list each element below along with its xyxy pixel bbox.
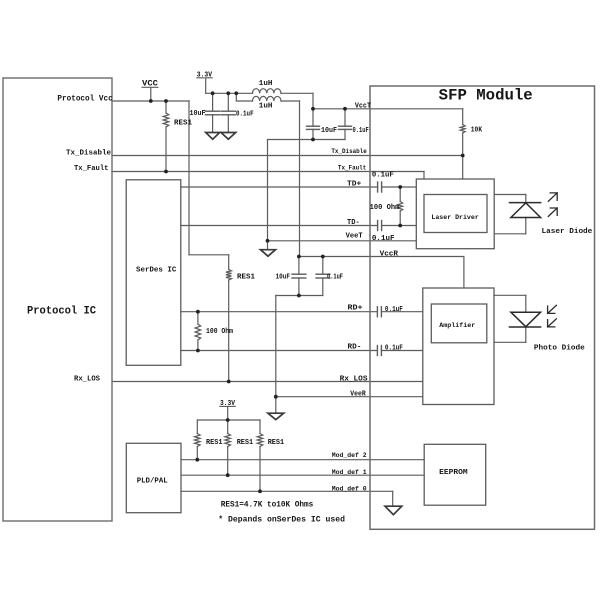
svg-text:PLD/PAL: PLD/PAL	[137, 478, 168, 486]
svg-text:VccT: VccT	[355, 102, 371, 110]
svg-text:RD+: RD+	[348, 305, 363, 313]
svg-text:10uF: 10uF	[190, 110, 206, 118]
svg-text:100 Ohm: 100 Ohm	[370, 204, 400, 212]
svg-text:0.1uF: 0.1uF	[372, 172, 394, 180]
svg-text:VeeT: VeeT	[346, 233, 363, 241]
svg-text:VccR: VccR	[380, 250, 399, 258]
svg-text:SFP Module: SFP Module	[439, 86, 533, 104]
svg-text:TD-: TD-	[347, 219, 360, 227]
svg-text:Tx_Fault: Tx_Fault	[74, 165, 109, 173]
svg-text:VCC: VCC	[142, 80, 158, 89]
svg-text:0.1uF: 0.1uF	[353, 127, 370, 135]
svg-text:3.3V: 3.3V	[197, 71, 213, 79]
svg-text:Laser Diode: Laser Diode	[542, 228, 593, 236]
svg-text:SerDes IC: SerDes IC	[136, 267, 177, 275]
svg-text:Mod_def 0: Mod_def 0	[332, 485, 367, 493]
svg-text:Rx_LOS: Rx_LOS	[74, 375, 100, 383]
svg-text:Tx_Disable: Tx_Disable	[331, 148, 366, 156]
svg-text:RD-: RD-	[348, 343, 362, 351]
svg-text:0.1uF: 0.1uF	[327, 273, 343, 281]
svg-text:10uF: 10uF	[321, 127, 337, 135]
svg-text:10uF: 10uF	[276, 273, 291, 281]
svg-text:Mod_def 1: Mod_def 1	[332, 469, 367, 477]
svg-text:1uH: 1uH	[259, 80, 273, 88]
svg-text:RES1: RES1	[237, 439, 254, 447]
svg-text:0.1uF: 0.1uF	[372, 235, 395, 243]
svg-text:0.1uF: 0.1uF	[385, 345, 403, 353]
svg-text:EEPROM: EEPROM	[439, 469, 468, 477]
svg-text:RES1: RES1	[206, 439, 223, 447]
svg-text:RES1: RES1	[268, 439, 285, 447]
svg-text:10K: 10K	[471, 127, 483, 135]
svg-text:Amplifier: Amplifier	[439, 322, 475, 330]
svg-text:Rx_LOS: Rx_LOS	[340, 375, 368, 383]
svg-text:100 Ohm: 100 Ohm	[206, 328, 233, 336]
svg-text:RES1: RES1	[174, 119, 192, 127]
svg-text:Mod_def 2: Mod_def 2	[332, 452, 367, 460]
svg-text:1uH: 1uH	[259, 102, 273, 110]
svg-text:RES1: RES1	[237, 273, 255, 281]
svg-text:TD+: TD+	[347, 180, 361, 188]
svg-text:Laser Driver: Laser Driver	[431, 214, 478, 222]
svg-text:3.3V: 3.3V	[220, 400, 236, 408]
svg-text:* Depands onSerDes IC used: * Depands onSerDes IC used	[218, 516, 345, 524]
svg-text:RES1=4.7K to10K Ohms: RES1=4.7K to10K Ohms	[221, 501, 314, 509]
svg-text:Photo Diode: Photo Diode	[534, 344, 585, 352]
svg-text:Protocol Vcc: Protocol Vcc	[57, 95, 113, 103]
svg-text:0.1uF: 0.1uF	[385, 306, 403, 314]
svg-text:0.1uF: 0.1uF	[236, 110, 254, 118]
svg-text:Protocol IC: Protocol IC	[27, 306, 96, 318]
svg-text:Tx_Fault: Tx_Fault	[338, 165, 366, 173]
svg-text:VeeR: VeeR	[350, 391, 366, 399]
svg-text:Tx_Disable: Tx_Disable	[66, 150, 111, 158]
